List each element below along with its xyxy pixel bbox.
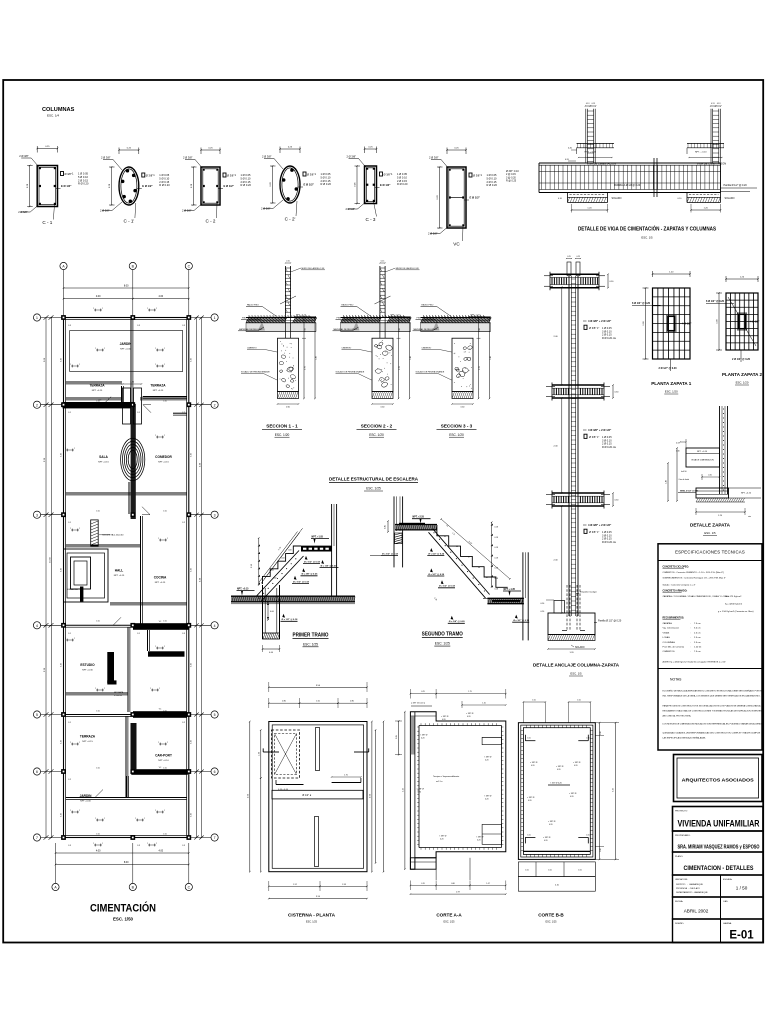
svg-text:0.30: 0.30 [600,731,602,734]
svg-text:4 Ø 1/2": 4 Ø 1/2" [750,321,760,324]
svg-text:5 Ø 0.10: 5 Ø 0.10 [241,176,252,180]
svg-text:1.50: 1.50 [577,700,581,702]
right zapata under beam [686,193,688,203]
svg-text:1: 1 [214,316,216,320]
column section C-1p [119,149,139,151]
svg-text:ESC. 1/20: ESC. 1/20 [275,433,290,437]
svg-text:LOSAS: LOSAS [663,636,671,639]
svg-text:R Ø 0.20: R Ø 0.20 [487,183,498,187]
svg-text:1.58: 1.58 [342,884,346,886]
nested closet detail [64,549,109,602]
svg-text:0.25: 0.25 [421,691,425,693]
svg-text:SOBRECIMIENTOS : Cemento Horm: SOBRECIMIENTOS : Cemento Hormigon 1:8 + … [663,577,726,580]
svg-text:2 Ø 3/8": 2 Ø 3/8" [101,156,111,160]
svg-text:JARDIN: JARDIN [120,342,133,346]
svg-text:NPT +0.00: NPT +0.00 [80,800,91,802]
svg-text:Ø c 1/4" @ 0.20: Ø c 1/4" @ 0.20 [321,565,338,568]
svg-text:C-1: C-1 [68,633,71,635]
svg-text:Ø 3/8": Ø 3/8" [589,530,596,534]
svg-text:DEPARTAMENTO : LAMBAYEQUE: DEPARTAMENTO : LAMBAYEQUE [676,891,708,894]
svg-text:ZAPATAS / COLUMNAS / VIGAS CIM: ZAPATAS / COLUMNAS / VIGAS CIMENTACION ,… [663,595,730,598]
svg-text:C-3: C-3 [182,633,185,635]
svg-text:2 Ø 3/8": 2 Ø 3/8" [429,156,439,160]
svg-text:E Ø 1/2": E Ø 1/2" [224,184,235,188]
svg-text:1.05: 1.05 [527,834,530,836]
svg-text:0.18: 0.18 [495,578,499,580]
svg-text:1.40: 1.40 [490,356,492,360]
svg-text:R Ø 0.20: R Ø 0.20 [397,182,408,186]
svg-text:5 Ø 0.10: 5 Ø 0.10 [487,176,498,180]
svg-text:07: 07 [468,557,470,559]
svg-text:SECCION 2 - 2: SECCION 2 - 2 [361,424,393,429]
title block diseno + lamina [673,919,764,943]
svg-text:× 3/8" Ø: × 3/8" Ø [466,712,474,715]
svg-text:0.15: 0.15 [676,443,680,445]
svg-text:3: 3 [36,513,38,517]
svg-text:0.15: 0.15 [381,261,385,263]
svg-text:× 3/8" Ø: × 3/8" Ø [556,765,564,768]
planta zapata 1 [653,288,691,359]
svg-text:0.15: 0.15 [286,261,290,263]
svg-text:1.50: 1.50 [96,511,100,513]
svg-text:Ø 3/8": Ø 3/8" [65,172,72,176]
svg-text:COCINA: COCINA [154,576,167,580]
svg-text:UBICACION:: UBICACION: [675,878,688,881]
svg-text:VIGA DE CIMENTACION: VIGA DE CIMENTACION [697,161,726,165]
svg-text:1.50: 1.50 [163,834,167,836]
svg-text:0.60: 0.60 [305,328,307,332]
svg-text:2.5 cm: 2.5 cm [694,637,701,639]
svg-text:NPT +0.15: NPT +0.15 [92,390,103,392]
svg-text:PARA PROCESOS CONSTRUCTIVOS NO: PARA PROCESOS CONSTRUCTIVOS NO DETALLADO… [663,705,762,708]
svg-text:ESC. 1/25: ESC. 1/25 [444,921,456,924]
svg-text:0.50: 0.50 [541,603,545,605]
svg-text:E-01: E-01 [729,930,754,942]
svg-text:NPT. +0.10: NPT. +0.10 [697,451,708,453]
svg-text:ESC. 1/25: ESC. 1/25 [546,921,558,924]
svg-text:PLANO:: PLANO: [675,855,683,858]
svg-text:ASI COMO AL PROYECTISTA.: ASI COMO AL PROYECTISTA. [663,715,692,718]
svg-text:ESC. 1/5: ESC. 1/5 [704,531,716,535]
svg-text:COLUMNAS: COLUMNAS [663,641,676,644]
svg-text:C04: C04 [281,558,284,560]
svg-text:0.20: 0.20 [485,760,489,762]
svg-text:1°: 1° [597,327,599,330]
svg-text:C - 2: C - 2 [206,219,216,224]
svg-text:1.50: 1.50 [163,768,167,770]
svg-text:0.18: 0.18 [495,568,499,570]
svg-text:PRIMER TRAMO: PRIMER TRAMO [293,633,329,639]
svg-text:1.05: 1.05 [578,870,582,872]
svg-text:NOTAS: NOTAS [670,678,682,682]
svg-text:R Ø 0.20 c/e: R Ø 0.20 c/e [602,541,617,544]
svg-text:× 3/8" Ø: × 3/8" Ø [527,796,535,799]
svg-text:0.60: 0.60 [381,407,385,409]
svg-text:C-1: C-1 [137,412,140,414]
svg-text:3.30: 3.30 [61,663,63,667]
svg-text:5 Ø 0.10: 5 Ø 0.10 [321,175,332,179]
svg-text:C-1: C-1 [68,412,71,414]
svg-text:SALA: SALA [99,455,108,459]
svg-text:4: 4 [36,624,38,628]
svg-text:DISEÑO:: DISEÑO: [675,922,684,925]
svg-text:CIMIENTOS: CIMIENTOS [663,651,676,653]
svg-text:3.30: 3.30 [191,740,193,744]
anclaje footing [548,613,595,635]
svg-text:05: 05 [444,536,446,538]
svg-text:2.5 cm: 2.5 cm [694,642,701,644]
svg-text:0.70: 0.70 [479,366,481,370]
svg-text:SOLADO: SOLADO [725,197,735,200]
svg-text:2 Ø 1/2" @ 0.20: 2 Ø 1/2" @ 0.20 [659,367,678,370]
svg-text:1.75: 1.75 [468,691,472,693]
svg-text:TERRAZA: TERRAZA [89,384,105,388]
svg-text:× 3/8" Ø: × 3/8" Ø [476,836,484,839]
svg-text:C-2: C-2 [182,522,185,524]
svg-text:ESC. 1/20: ESC. 1/20 [736,381,749,385]
svg-text:0.60: 0.60 [399,328,401,332]
beam detail left column [585,109,587,163]
svg-text:ESCALERA: ESCALERA [67,588,78,591]
svg-text:CORTE A-A: CORTE A-A [436,913,462,918]
wall dim ticks [71,365,79,367]
svg-text:ESC. 1/4: ESC. 1/4 [47,114,59,118]
svg-text:VC: VC [453,242,460,247]
svg-text:EL DISEÑO DE MEZCLA A EMPLEAR: EL DISEÑO DE MEZCLA A EMPLEAR EN EL CONC… [663,690,763,693]
svg-text:4 Ø 3/8" + 2 Ø 1/2": 4 Ø 3/8" + 2 Ø 1/2" [588,523,612,527]
svg-text:3.30: 3.30 [191,453,193,457]
svg-text:0.30: 0.30 [600,848,602,851]
svg-text:C-3: C-3 [182,325,185,327]
anclaje top beam [550,273,599,275]
svg-text:0.20: 0.20 [557,769,561,771]
svg-text:R Ø 0.20 c/e: R Ø 0.20 c/e [602,446,617,449]
svg-text:LAMINA:: LAMINA: [723,922,732,925]
svg-text:Ø 3/8": Ø 3/8" [589,435,596,439]
svg-text:× 3/8" Ø: × 3/8" Ø [548,820,556,823]
svg-text:1.00: 1.00 [548,870,552,872]
svg-text:CORTE B-B: CORTE B-B [538,913,564,918]
svg-text:C - 1': C - 1' [123,219,134,224]
svg-text:VIGAS: VIGAS [663,631,670,634]
svg-text:1.50: 1.50 [163,711,167,713]
seccion 2-2 [379,266,381,318]
svg-text:3.30: 3.30 [61,740,63,744]
svg-text:0.70: 0.70 [399,366,401,370]
svg-text:2 Ø 3/8": 2 Ø 3/8" [347,155,357,159]
svg-text:R @ 0.25: R @ 0.25 [506,180,517,183]
svg-text:NPT. +0.20: NPT. +0.20 [741,493,752,495]
svg-text:SOLADO DE PIEDRA GRANDE: SOLADO DE PIEDRA GRANDE [241,371,270,374]
svg-text:C - 1: C - 1 [42,220,52,225]
svg-text:ING. RESPONSABLE DE LA OBRA, L: ING. RESPONSABLE DE LA OBRA, LOS MISMOS … [663,695,761,698]
svg-text:ESC. 1/50: ESC. 1/50 [113,917,134,922]
svg-text:2 Ø 0.15: 2 Ø 0.15 [241,180,252,184]
svg-text:JARDIN: JARDIN [80,794,93,798]
svg-text:× 3/8" Ø: × 3/8" Ø [439,835,447,838]
svg-text:C-1: C-1 [137,633,140,635]
svg-text:PLANTA ZAPATA 2: PLANTA ZAPATA 2 [722,372,762,377]
central pilaster cluster row2 [123,388,131,424]
svg-text:0.20: 0.20 [570,796,574,798]
svg-text:1°: 1° [597,531,599,534]
svg-text:DETALLE ANCLAJE COLUMNA-ZAPATA: DETALLE ANCLAJE COLUMNA-ZAPATA [533,663,620,668]
svg-text:CAD:: CAD: [723,900,729,903]
svg-text:E Ø 1/2": E Ø 1/2" [380,183,391,187]
svg-text:15.60: 15.60 [50,556,52,562]
svg-text:0.25: 0.25 [576,256,580,258]
svg-text:C-3: C-3 [68,845,71,847]
svg-text:3.30: 3.30 [61,813,63,817]
svg-text:× 3/8" Ø: × 3/8" Ø [441,715,449,718]
svg-text:NPT. + 0.10: NPT. + 0.10 [695,152,707,154]
svg-text:0.20: 0.20 [549,824,553,826]
svg-text:1.50: 1.50 [96,768,100,770]
hatched column plan [91,520,99,546]
svg-text:4 Ø 1/2": 4 Ø 1/2" [682,323,692,326]
svg-text:× 3/8" Ø: × 3/8" Ø [484,795,492,798]
column section C-2p [280,148,300,150]
svg-text:0.20: 0.20 [442,719,446,721]
svg-text:SECCION 3 - 3: SECCION 3 - 3 [441,424,473,429]
svg-text:C-3: C-3 [137,325,140,327]
svg-text:0.13: 0.13 [586,103,590,105]
svg-text:5 Ø 0.10: 5 Ø 0.10 [159,176,170,180]
svg-text:06: 06 [456,546,458,548]
svg-text:CISTERNA - PLANTA: CISTERNA - PLANTA [288,913,336,918]
anclaje mid beam 1 [552,384,604,386]
svg-text:6: 6 [36,770,38,774]
svg-text:7: 7 [214,836,216,840]
svg-text:TERRAZA: TERRAZA [150,384,166,388]
svg-text:Parrilla Ø 1/2" @ 0.20: Parrilla Ø 1/2" @ 0.20 [598,620,622,623]
svg-text:ZAPATAS: ZAPATAS [663,622,673,625]
thick beam row4 [133,623,189,630]
svg-text:× 3/8" Ø: × 3/8" Ø [417,788,425,791]
svg-text:0.70: 0.70 [421,883,425,885]
svg-text:NPT +0.00: NPT +0.00 [120,348,131,350]
svg-text:C01: C01 [271,570,274,572]
svg-text:C-2: C-2 [182,722,185,724]
anclaje columna-zapata column shaft [568,276,570,616]
svg-text:0.25: 0.25 [567,256,571,258]
svg-text:1.50: 1.50 [163,401,167,403]
svg-text:3.30: 3.30 [191,568,193,572]
svg-text:0.18: 0.18 [495,547,499,549]
svg-text:4.00: 4.00 [96,850,101,853]
svg-text:7.5 cm: 7.5 cm [694,623,701,625]
svg-text:R Ø 0.20: R Ø 0.20 [241,183,252,187]
thick vertical beam center [131,404,136,519]
anclaje mid beam 2 [552,492,604,494]
thick vertical beam carport [131,723,137,770]
svg-text:0.20: 0.20 [544,840,548,842]
svg-text:ESC. 1/25: ESC. 1/25 [366,487,381,491]
svg-text:0.20: 0.20 [528,800,532,802]
title block plano [673,852,764,875]
svg-text:SEGUNDO TRAMO: SEGUNDO TRAMO [422,632,463,638]
svg-text:VIGA DE CIMENTACION: VIGA DE CIMENTACION [691,459,714,462]
svg-text:8.00: 8.00 [124,861,129,864]
thick beam below row4 [148,651,185,656]
svg-text:R Ø 0.20: R Ø 0.20 [159,183,170,187]
svg-text:COLUMNAS: COLUMNAS [42,107,75,113]
svg-text:0.30: 0.30 [676,451,680,453]
svg-text:1.10: 1.10 [482,703,486,705]
svg-text:0.18: 0.18 [495,588,499,590]
svg-text:NPT +0.15: NPT +0.15 [82,741,93,743]
seccion 1-1 [284,266,286,318]
svg-text:0.70: 0.70 [305,366,307,370]
svg-text:0.20: 0.20 [541,611,545,613]
svg-text:QUEDA BAJO LA ABSOLUTA RESPONS: QUEDA BAJO LA ABSOLUTA RESPONSABILIDAD D… [663,732,761,735]
left zapata under beam [567,193,569,203]
title block proyecto [673,807,764,832]
svg-text:REGLAMENTO NACIONAL DE CONSTRU: REGLAMENTO NACIONAL DE CONSTRUCCIONES Y … [663,710,763,713]
svg-text:ESC. 1/20: ESC. 1/20 [369,433,384,437]
svg-text:1 Ø 0.05: 1 Ø 0.05 [78,172,89,176]
svg-text:5: 5 [36,713,38,717]
svg-text:NPT +0.10: NPT +0.10 [158,760,169,762]
svg-text:Ø c 1/4" @ 0.20: Ø c 1/4" @ 0.20 [449,620,466,623]
svg-text:2: 2 [214,403,216,407]
thick beam row5 [133,711,187,718]
svg-text:1.40: 1.40 [316,356,318,360]
svg-text:f'c = 175 Kg/cm2: f'c = 175 Kg/cm2 [725,596,742,598]
svg-text:0.18: 0.18 [495,557,499,559]
svg-text:Parrilla Ø 1/2" @ 0.20: Parrilla Ø 1/2" @ 0.20 [724,184,748,187]
planta zapata 2 [726,293,758,350]
svg-text:2.5 cm: 2.5 cm [694,632,701,634]
svg-text:CAR-PORT: CAR-PORT [155,754,172,758]
svg-text:1 / 50: 1 / 50 [736,886,748,891]
foundation beam detail (viga de cimentacion) [539,162,721,164]
svg-text:MOCHETA: MOCHETA [114,691,124,694]
svg-text:1.20 mt: 1.20 mt [694,646,702,649]
svg-text:g = 1.50 Kg/cm2 (Cemento en Ob: g = 1.50 Kg/cm2 (Cemento en Obra) [718,610,754,613]
plan partition walls [130,318,132,402]
svg-text:NPT +0.15: NPT +0.15 [158,461,169,463]
svg-text:0.60: 0.60 [461,407,465,409]
svg-text:0.20: 0.20 [418,792,422,794]
svg-text:LOS NIVELES DE CIMENTACION IND: LOS NIVELES DE CIMENTACION INDICADOS SON… [663,723,764,726]
svg-text:ESPECIFICACIONES TECNICAS: ESPECIFICACIONES TECNICAS [675,550,745,555]
plan column markers [61,315,66,320]
svg-text:4.00: 4.00 [158,295,163,298]
svg-text:FECHA:: FECHA: [675,900,683,903]
svg-text:ESC: 1/25: ESC: 1/25 [435,642,450,646]
svg-text:0.20: 0.20 [440,839,444,841]
svg-text:6: 6 [214,770,216,774]
svg-text:1.50: 1.50 [316,701,320,703]
svg-text:ACERO fy = 4200 Kg/cm2 Grado 6: ACERO fy = 4200 Kg/cm2 Grado 60 corrugad… [663,661,727,664]
svg-text:1.05: 1.05 [586,738,589,740]
svg-text:5 Ø 0.10: 5 Ø 0.10 [397,175,408,179]
svg-text:ESC. 1/20: ESC. 1/20 [449,433,464,437]
svg-text:NPT +0.15: NPT +0.15 [114,575,125,577]
svg-text:C-3: C-3 [137,845,140,847]
floor plan CIMENTACION [60,262,67,269]
svg-text:3.30: 3.30 [61,358,63,362]
svg-text:1 Ø 0.05: 1 Ø 0.05 [241,173,252,177]
svg-text:1.50: 1.50 [96,834,100,836]
svg-text:× 3/8" Ø: × 3/8" Ø [484,756,492,759]
svg-text:0.18: 0.18 [495,527,499,529]
corte B-B tank section [518,723,595,860]
beam right extension + parrilla label [721,187,758,189]
title block arquitectos box [674,755,763,802]
title block propietario [673,831,764,852]
svg-text:C03: C03 [288,550,291,552]
svg-text:1.52: 1.52 [293,884,297,886]
svg-text:3.20: 3.20 [613,788,615,792]
svg-text:Empalme traslape: Empalme traslape [580,591,598,594]
svg-text:Prof. Min. de Cimiento: Prof. Min. de Cimiento [663,646,685,649]
svg-text:h=0.50: h=0.50 [681,471,687,473]
column section VC [447,149,466,151]
svg-text:0.85: 0.85 [396,735,398,739]
svg-text:E Ø 1/2": E Ø 1/2" [470,196,481,200]
svg-text:1.40: 1.40 [666,480,668,484]
svg-text:2.10: 2.10 [402,788,404,792]
svg-text:Solado : Concreto Ciclopeo e: Solado : Concreto Ciclopeo e = 4" [663,584,696,587]
svg-text:2 Ø 3/8": 2 Ø 3/8" [262,155,272,159]
svg-text:C-3: C-3 [68,325,71,327]
svg-text:2 Ø 3/8": 2 Ø 3/8" [19,154,29,158]
left column flange + labels [577,142,615,144]
title block ubicacion + escala [673,875,764,897]
svg-text:ABRIL 2002: ABRIL 2002 [684,909,709,914]
seccion 3-3 [421,317,491,319]
svg-text:1.50: 1.50 [163,621,167,623]
column section C-2 [201,149,220,151]
beam detail right column [710,109,712,163]
svg-text:5 Ø 0.10: 5 Ø 0.10 [78,175,89,179]
svg-text:SOLADO DE PIEDRA GRANDE: SOLADO DE PIEDRA GRANDE [336,371,365,374]
svg-text:PLANTA ZAPATA 1: PLANTA ZAPATA 1 [651,381,691,386]
svg-text:1.50: 1.50 [532,700,536,702]
svg-text:E Ø 1/2": E Ø 1/2" [142,184,153,188]
svg-text:Cota de fondo: Cota de fondo [679,478,690,481]
svg-text:C - 3: C - 3 [366,217,376,222]
svg-text:0.80: 0.80 [282,701,286,703]
svg-text:4 Ø 3/8" + 2 Ø 1/2": 4 Ø 3/8" + 2 Ø 1/2" [588,428,612,432]
svg-text:R Ø 0.20: R Ø 0.20 [321,182,332,186]
svg-text:CIMENTACION - DETALLES: CIMENTACION - DETALLES [684,865,754,872]
svg-text:MURO DE LADRILLO KK: MURO DE LADRILLO KK [302,267,326,270]
svg-text:ARQUITECTOS ASOCIADOS: ARQUITECTOS ASOCIADOS [682,778,754,783]
svg-text:0.13: 0.13 [711,103,715,105]
svg-text:× 3/8" Ø: × 3/8" Ø [530,761,538,764]
corte A-A tank section [410,712,505,869]
svg-text:Ø 3/8": Ø 3/8" [227,174,234,178]
svg-text:2.97: 2.97 [456,892,460,894]
svg-text:C-2: C-2 [182,412,185,414]
detalle zapata [719,406,721,494]
svg-text:2 Ø 0.15: 2 Ø 0.15 [321,179,332,183]
svg-text:ESTUDIO: ESTUDIO [80,663,95,667]
svg-text:2 Ø 0.15: 2 Ø 0.15 [159,180,170,184]
svg-text:NPT. + 0.10: NPT. + 0.10 [585,152,597,154]
svg-text:E Ø 1/2": E Ø 1/2" [61,184,72,188]
svg-text:Ø 1/2" ø: Ø 1/2" ø [302,794,312,797]
svg-text:3.30: 3.30 [61,568,63,572]
svg-text:1 Ø 0.05: 1 Ø 0.05 [321,172,332,176]
oval spiral stair [121,438,145,480]
svg-text:1.05: 1.05 [525,870,529,872]
svg-text:0.20: 0.20 [574,765,578,767]
svg-text:NPT +0.30: NPT +0.30 [82,669,93,671]
